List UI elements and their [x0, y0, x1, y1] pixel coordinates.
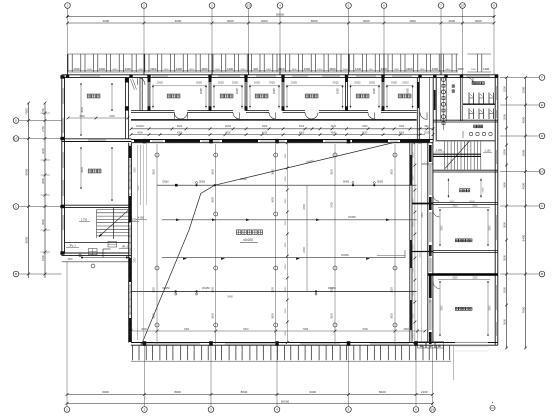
svg-text:7000: 7000 [243, 328, 249, 331]
svg-text:DN25: DN25 [274, 87, 276, 94]
svg-text:1500: 1500 [432, 67, 439, 71]
svg-text:1400: 1400 [483, 67, 490, 71]
svg-text:3000: 3000 [430, 297, 432, 303]
svg-text:DN25: DN25 [408, 87, 410, 94]
svg-text:980: 980 [425, 125, 430, 128]
corridor north offices partition walls [148, 77, 385, 110]
svg-text:3302: 3302 [150, 67, 157, 71]
svg-text:3600: 3600 [441, 305, 443, 311]
svg-text:2800: 2800 [135, 167, 137, 173]
room office label [167, 94, 180, 98]
svg-text:8000: 8000 [24, 236, 28, 243]
svg-text:1800: 1800 [502, 149, 506, 155]
svg-text:4000: 4000 [413, 152, 415, 158]
svg-text:3600: 3600 [489, 305, 491, 311]
top facade window tick band [68, 54, 492, 75]
svg-text:2400: 2400 [303, 247, 306, 253]
grid line D left circle [13, 118, 61, 124]
svg-text:1500: 1500 [138, 185, 140, 191]
svg-text:7000: 7000 [303, 328, 309, 331]
svg-text:3600: 3600 [271, 313, 274, 319]
door annex office [433, 195, 439, 201]
grid line 1 top circle [65, 3, 71, 75]
svg-text:2400: 2400 [394, 69, 400, 71]
annex south wall [433, 343, 498, 346]
svg-text:DN150: DN150 [162, 287, 170, 290]
svg-text:3300: 3300 [79, 115, 85, 118]
svg-text:4000: 4000 [521, 182, 525, 189]
room lab 1 annex [438, 206, 491, 246]
svg-text:8400: 8400 [521, 234, 525, 241]
svg-text:50000: 50000 [276, 12, 285, 16]
svg-text:4000: 4000 [225, 131, 231, 134]
grid line 1/C left circle [13, 136, 61, 142]
svg-text:2022: 2022 [472, 278, 478, 280]
svg-text:3000: 3000 [502, 319, 506, 325]
svg-text:3000: 3000 [285, 286, 287, 292]
door D5 office 5 [368, 112, 375, 119]
annex sewage riser stack [441, 77, 446, 130]
grid line 1/C right circle [500, 169, 545, 175]
svg-text:4000: 4000 [413, 290, 415, 296]
svg-text:9000: 9000 [309, 390, 316, 394]
svg-text:2000: 2000 [285, 176, 287, 182]
svg-text:DN80: DN80 [162, 181, 169, 184]
svg-text:DN25: DN25 [333, 83, 340, 85]
svg-text:B: B [15, 272, 17, 276]
svg-text:3600: 3600 [331, 169, 334, 175]
corridor dimension line lower [130, 131, 435, 136]
svg-text:2400: 2400 [406, 67, 413, 71]
svg-text:2000: 2000 [413, 198, 415, 204]
svg-text:3000: 3000 [521, 86, 525, 93]
annex wall below stair [433, 170, 498, 172]
hall east wall (shared with annex) [428, 142, 433, 345]
drain pipe diagonal run (shallow to NE) [215, 143, 426, 186]
annex wall below toilets [433, 120, 498, 122]
svg-text:1500: 1500 [317, 69, 323, 71]
svg-text:DN150: DN150 [328, 287, 336, 290]
svg-text:1.750: 1.750 [81, 218, 88, 222]
svg-text:2400: 2400 [299, 125, 305, 128]
svg-text:4400: 4400 [112, 69, 118, 71]
svg-text:2400: 2400 [362, 125, 368, 128]
svg-text:1460: 1460 [227, 67, 234, 71]
room office B (left block) [80, 147, 113, 201]
annex interior dim column [439, 205, 441, 344]
svg-text:JFL-1: JFL-1 [69, 244, 76, 248]
svg-text:2022: 2022 [452, 206, 458, 208]
svg-text:3600: 3600 [153, 169, 156, 175]
room womens washroom label and basins [463, 125, 492, 138]
svg-text:DN100: DN100 [136, 125, 144, 128]
svg-text:2400: 2400 [303, 204, 306, 210]
annex wall above stair [437, 140, 495, 142]
svg-text:8000: 8000 [241, 390, 248, 394]
svg-text:7000: 7000 [521, 306, 525, 313]
door D3 office 3 [269, 112, 276, 119]
svg-text:E: E [541, 103, 543, 107]
svg-text:1/7: 1/7 [460, 4, 465, 8]
svg-text:DN25: DN25 [237, 87, 239, 94]
svg-text:4000: 4000 [261, 19, 268, 23]
entry step boxes south-east [418, 341, 444, 348]
office sprinkler dots and DN25 labels [152, 83, 414, 109]
pipe riser column 5 with floor drains [391, 144, 397, 344]
grid line F right circle [500, 75, 545, 81]
svg-text:2000: 2000 [285, 220, 287, 226]
svg-text:1500: 1500 [41, 255, 45, 261]
svg-text:2000: 2000 [413, 267, 415, 273]
grid line 5 bottom circle [346, 346, 352, 413]
corridor dimension line upper [130, 127, 435, 130]
hall column dimension line (7000 spans) [130, 328, 427, 333]
svg-text:3600: 3600 [271, 197, 274, 203]
svg-text:3600: 3600 [211, 313, 214, 319]
grid line B right circle [500, 271, 545, 277]
svg-text:2750: 2750 [41, 126, 45, 132]
svg-text:2025: 2025 [331, 125, 337, 128]
svg-text:3600: 3600 [292, 69, 298, 71]
svg-text:1440: 1440 [355, 67, 362, 71]
svg-text:DN25: DN25 [391, 83, 398, 85]
svg-text:DN150: DN150 [348, 216, 356, 219]
left overall dimension line [24, 102, 30, 278]
room lab 2 annex [438, 278, 491, 336]
svg-text:2022: 2022 [452, 278, 458, 280]
svg-text:2400: 2400 [176, 67, 183, 71]
svg-text:2400: 2400 [482, 187, 484, 193]
pipe crossing to annex [422, 163, 434, 165]
hall interior east partition wall [410, 77, 430, 342]
svg-text:1900: 1900 [399, 125, 405, 128]
grid line C left circle [13, 204, 61, 210]
interior wall above left stair [62, 205, 132, 207]
grid line 5 top circle [346, 3, 352, 75]
svg-text:4000: 4000 [137, 131, 143, 134]
svg-text:3000: 3000 [413, 313, 415, 319]
svg-text:2800: 2800 [135, 257, 137, 263]
svg-text:DN50: DN50 [225, 125, 232, 128]
room office A (left block) [67, 83, 130, 136]
grid line 4 top circle [277, 3, 283, 75]
pipe riser column 1 with floor drains [153, 144, 159, 344]
svg-text:1060: 1060 [266, 69, 272, 71]
svg-text:2400: 2400 [109, 115, 115, 118]
interior wall below left stair [65, 241, 132, 243]
door corridor east end [420, 112, 427, 119]
svg-text:3000: 3000 [502, 255, 506, 261]
svg-text:3600: 3600 [211, 197, 214, 203]
svg-text:1340: 1340 [73, 67, 80, 71]
svg-text:7500: 7500 [24, 108, 28, 115]
device labels JFL (left block bottom strip) [66, 242, 131, 268]
svg-text:8000: 8000 [379, 390, 386, 394]
toilet stalls upper row [463, 93, 495, 105]
hall room label [237, 230, 263, 242]
svg-text:8000: 8000 [311, 19, 318, 23]
svg-text:7000: 7000 [362, 328, 368, 331]
svg-text:1500: 1500 [502, 86, 506, 92]
svg-text:1900: 1900 [262, 125, 268, 128]
svg-text:5000: 5000 [362, 131, 368, 134]
horizontal pipe with flow arrows (mid-upper) [162, 219, 417, 222]
svg-text:DN25: DN25 [218, 83, 225, 85]
grid line 3 bottom circle [208, 346, 214, 413]
svg-text:2400: 2400 [422, 212, 424, 218]
svg-text:2022: 2022 [424, 131, 430, 134]
svg-text:3000: 3000 [502, 222, 506, 228]
svg-text:1/6: 1/6 [430, 408, 435, 412]
horizontal pipe main DN80 (upper) [157, 178, 417, 187]
svg-text:DN50: DN50 [199, 181, 206, 184]
svg-text:3940: 3940 [177, 125, 183, 128]
svg-text:DN25: DN25 [254, 83, 261, 85]
svg-text:50000: 50000 [281, 399, 290, 403]
svg-text:4000: 4000 [227, 19, 234, 23]
svg-text:3000: 3000 [189, 69, 195, 71]
svg-text:3300: 3300 [445, 69, 451, 71]
hall south wall with windows [131, 341, 433, 346]
svg-text:3000: 3000 [41, 148, 45, 154]
svg-text:3600: 3600 [391, 169, 394, 175]
hall west wall [129, 143, 132, 343]
svg-text:2400: 2400 [227, 296, 233, 299]
svg-text:2000: 2000 [285, 308, 287, 314]
svg-text:3000: 3000 [413, 244, 415, 250]
svg-text:1500: 1500 [471, 69, 477, 71]
grid line 7 top circle [438, 3, 444, 75]
svg-text:3000: 3000 [41, 219, 45, 225]
svg-text:4000: 4000 [177, 131, 183, 134]
svg-text:DN150: DN150 [341, 254, 349, 257]
svg-text:2400: 2400 [240, 69, 246, 71]
svg-text:DN25: DN25 [355, 83, 362, 85]
svg-text:DN80: DN80 [343, 180, 350, 183]
exterior wall west (left) [60, 75, 64, 256]
svg-text:3400: 3400 [125, 67, 132, 71]
svg-text:2022: 2022 [430, 252, 432, 258]
svg-text:4000: 4000 [521, 116, 525, 123]
svg-text:3600: 3600 [67, 259, 73, 261]
stair ST-1 (left block) [79, 208, 139, 239]
grid line 2 bottom circle [142, 346, 148, 413]
corridor north beam edge dark [131, 119, 417, 121]
svg-text:2400: 2400 [502, 182, 506, 188]
drain pipe diagonal run (steep) [142, 185, 215, 344]
right overall dimension line [521, 76, 527, 349]
bottom span dimension line [66, 390, 434, 396]
svg-text:1060: 1060 [99, 67, 106, 71]
pipe riser column 3 with floor drains [271, 144, 277, 344]
svg-text:3800: 3800 [521, 149, 525, 156]
svg-text:DN25: DN25 [269, 83, 276, 85]
left span dimension line [41, 102, 51, 278]
svg-text:3600: 3600 [329, 67, 336, 71]
svg-text:3000: 3000 [413, 175, 415, 181]
svg-text:3000: 3000 [285, 153, 287, 159]
left block east wall (vestibule) [125, 77, 129, 138]
svg-text:2000: 2000 [285, 264, 287, 270]
grid line 6 top circle [381, 3, 387, 75]
top overall dimension line (50000) [66, 12, 495, 18]
svg-text:DN150: DN150 [202, 287, 210, 290]
svg-text:DN25: DN25 [369, 83, 376, 85]
svg-text:F: F [541, 76, 543, 80]
annex wall below lab1 [433, 251, 498, 253]
grid line 8 top circle [491, 3, 497, 75]
svg-text:1500: 1500 [164, 69, 170, 71]
room office label [356, 94, 369, 98]
room office label [255, 94, 268, 98]
svg-text:6000: 6000 [102, 390, 109, 394]
svg-text:DN25: DN25 [403, 83, 410, 85]
svg-text:±0.000: ±0.000 [243, 238, 253, 242]
svg-text:3600: 3600 [391, 313, 394, 319]
grid line 1/3 top circle [246, 3, 252, 75]
hall west interior pipe lines [135, 143, 147, 340]
svg-text:DN25: DN25 [196, 83, 203, 85]
south facade window tick band [131, 346, 451, 362]
svg-text:4000: 4000 [448, 19, 455, 23]
svg-text:2000: 2000 [502, 114, 506, 120]
vestibule inner wall [140, 77, 142, 110]
svg-text:DN25: DN25 [232, 83, 239, 85]
room office label [305, 94, 318, 98]
svg-text:3600: 3600 [81, 167, 84, 173]
svg-text:3600: 3600 [331, 313, 334, 319]
svg-text:4000: 4000 [102, 19, 109, 23]
extension lines annex to bottom dims [454, 280, 466, 380]
grid line 1/7 top circle [460, 3, 466, 75]
annex heavy wall (dark) [428, 273, 498, 275]
svg-text:3000: 3000 [457, 67, 464, 71]
label DN150 on flow line [348, 216, 356, 219]
hall interior dimension string x287 [285, 141, 289, 344]
door D1 double office 1 [174, 112, 187, 119]
svg-text:3000: 3000 [141, 328, 147, 331]
door annex lab2 [433, 282, 440, 289]
svg-text:1340: 1340 [420, 69, 426, 71]
svg-text:3600: 3600 [81, 107, 84, 113]
room office label [398, 94, 411, 98]
svg-text:DN80: DN80 [377, 180, 384, 183]
svg-text:JFL-1: JFL-1 [122, 245, 129, 249]
svg-text:8000: 8000 [174, 390, 181, 394]
svg-text:2400: 2400 [343, 69, 349, 71]
annex wall below office [433, 203, 498, 205]
grid line B left circle [13, 271, 61, 277]
svg-text:2400: 2400 [138, 69, 144, 71]
annex east exterior wall [495, 75, 498, 345]
svg-text:DN25: DN25 [374, 87, 376, 94]
pipe riser column 2 with floor drains [211, 144, 217, 344]
svg-text:4000: 4000 [475, 19, 482, 23]
corridor south wall hall north wall [131, 139, 433, 143]
door D4 double office 4 [305, 112, 318, 119]
grid line 3 top circle [209, 3, 215, 75]
exterior wall left block south [62, 253, 132, 262]
svg-text:5000: 5000 [399, 131, 405, 134]
svg-text:1400: 1400 [215, 69, 221, 71]
svg-text:4.200: 4.200 [436, 149, 443, 152]
svg-text:2500: 2500 [403, 328, 409, 331]
svg-text:3000: 3000 [285, 330, 287, 336]
svg-text:1.150: 1.150 [484, 150, 491, 153]
grid line D right circle [500, 133, 545, 139]
faint stamp text bottom right [455, 342, 488, 351]
svg-text:DN25: DN25 [201, 87, 203, 94]
svg-text:DN25: DN25 [338, 87, 340, 94]
svg-text:4000: 4000 [409, 19, 416, 23]
svg-text:3600: 3600 [211, 169, 214, 175]
svg-text:2400: 2400 [331, 202, 334, 208]
svg-text:3600: 3600 [441, 225, 443, 231]
grid line 6 bottom circle [413, 346, 419, 413]
dim text strip between hall and annex [422, 212, 432, 303]
svg-text:1/C: 1/C [14, 137, 20, 141]
pipe riser column 4 with floor drains [331, 144, 337, 344]
svg-text:1500: 1500 [304, 67, 311, 71]
svg-text:4000: 4000 [413, 221, 415, 227]
svg-text:2022: 2022 [419, 252, 421, 258]
bottom overall dimension line (50000) [66, 399, 434, 405]
svg-text:DN25: DN25 [157, 83, 164, 85]
svg-text:3600: 3600 [489, 225, 491, 231]
toilet stalls lower row [469, 109, 494, 120]
svg-text:4600: 4600 [201, 67, 208, 71]
corridor north wall with doors [131, 111, 417, 113]
svg-text:4000: 4000 [363, 19, 370, 23]
svg-text:4032: 4032 [262, 131, 268, 134]
svg-text:2400: 2400 [278, 67, 285, 71]
horizontal pipe with flow arrows (mid-lower) [162, 250, 405, 260]
svg-text:1/C: 1/C [540, 170, 546, 174]
pipe branch riser x307 [303, 185, 307, 291]
svg-text:2000: 2000 [413, 333, 415, 339]
strip cross walls [412, 204, 433, 252]
grid line 4 bottom circle [274, 346, 280, 413]
grid line C right circle [500, 203, 545, 209]
svg-text:2100: 2100 [421, 390, 428, 394]
svg-text:2000: 2000 [502, 287, 506, 293]
grid line E right circle [500, 102, 545, 108]
svg-text:4000: 4000 [331, 131, 337, 134]
pipe lines in east strip [418, 143, 422, 343]
horizontal pipe main DN150 (lower) [131, 287, 417, 299]
svg-text:4000: 4000 [299, 131, 305, 134]
svg-text:4600: 4600 [175, 19, 182, 23]
annex washroom wall [452, 77, 462, 121]
right span dimension line [502, 76, 508, 349]
interior wall left block (corridor level) [62, 139, 132, 142]
hall east dimension string [413, 141, 417, 344]
room mens toilet [467, 77, 484, 84]
svg-text:B: B [541, 272, 543, 276]
door D2 office 2 [233, 112, 240, 119]
north/section mark bottom right [490, 402, 495, 411]
grid line 2 top circle [141, 3, 147, 75]
svg-text:900: 900 [253, 67, 258, 71]
svg-text:2022: 2022 [472, 206, 478, 208]
svg-text:8000: 8000 [24, 168, 28, 175]
room office label [220, 94, 233, 98]
svg-text:DN25: DN25 [291, 83, 298, 85]
wall between corridor and annex shaft [433, 77, 436, 141]
grid line 1/6 bottom circle [430, 346, 436, 413]
svg-text:3000: 3000 [41, 178, 45, 184]
stair ST-2 (annex) [433, 141, 492, 170]
